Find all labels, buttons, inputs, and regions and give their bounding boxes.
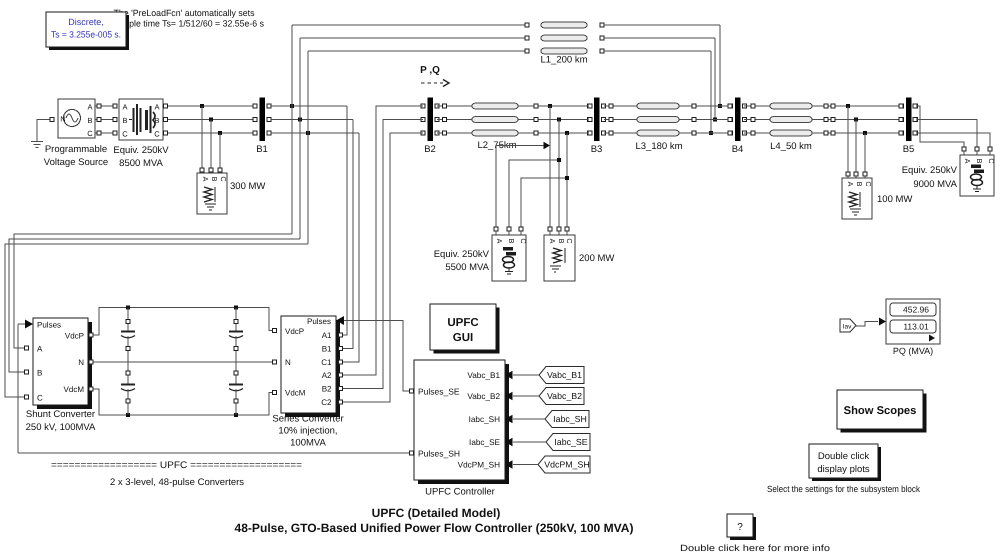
svg-text:B: B [557, 239, 566, 244]
svg-text:C: C [37, 394, 43, 403]
svg-text:N: N [78, 358, 84, 367]
svg-text:B: B [87, 116, 92, 125]
svg-text:C: C [864, 181, 873, 186]
svg-text:A: A [495, 239, 504, 244]
svg-text:B2: B2 [424, 144, 436, 155]
svg-text:452.96: 452.96 [903, 305, 929, 315]
svg-text:VdcPM_SH: VdcPM_SH [458, 461, 500, 470]
svg-text:C: C [219, 176, 228, 181]
svg-text:A: A [846, 182, 855, 187]
svg-text:A: A [201, 177, 210, 182]
svg-text:A: A [154, 103, 159, 112]
svg-text:10% injection,: 10% injection, [278, 426, 337, 437]
svg-text:B1: B1 [256, 144, 268, 155]
svg-text:Vabc_B1: Vabc_B1 [467, 371, 500, 380]
svg-text:N: N [60, 115, 65, 124]
svg-text:The 'PreLoadFcn' automatically: The 'PreLoadFcn' automatically sets [114, 8, 255, 18]
svg-text:VdcP: VdcP [65, 332, 84, 341]
svg-text:Iabc_SH: Iabc_SH [553, 414, 587, 424]
svg-text:A: A [87, 103, 92, 112]
svg-text:300 MW: 300 MW [230, 181, 265, 192]
svg-text:Equiv. 250kV: Equiv. 250kV [902, 165, 958, 176]
svg-text:48-Pulse, GTO-Based Unified Po: 48-Pulse, GTO-Based Unified Power Flow C… [235, 521, 634, 535]
svg-text:8500 MVA: 8500 MVA [119, 158, 163, 169]
svg-text:Pulses_SE: Pulses_SE [418, 387, 460, 397]
svg-text:Double click: Double click [818, 451, 869, 462]
svg-text:Equiv. 250kV: Equiv. 250kV [434, 249, 490, 260]
svg-text:Shunt Converter: Shunt Converter [26, 409, 95, 420]
svg-text:200 MW: 200 MW [579, 253, 614, 264]
svg-text:display plots: display plots [817, 464, 870, 475]
svg-text:L3_180 km: L3_180 km [635, 141, 682, 152]
svg-text:B4: B4 [732, 144, 744, 155]
svg-text:C: C [122, 130, 128, 139]
svg-text:B: B [122, 116, 127, 125]
svg-text:Iabc_SE: Iabc_SE [469, 438, 500, 447]
svg-text:Programmable: Programmable [45, 144, 107, 155]
svg-text:A: A [963, 159, 972, 164]
svg-text:C: C [519, 238, 528, 243]
svg-text:P ,Q: P ,Q [420, 65, 440, 76]
svg-text:Series Converter: Series Converter [272, 414, 343, 425]
svg-text:B5: B5 [903, 144, 915, 155]
svg-text:Discrete,: Discrete, [68, 17, 104, 27]
svg-text:Equiv. 250kV: Equiv. 250kV [113, 145, 169, 156]
svg-text:A: A [122, 103, 127, 112]
svg-text:C: C [154, 130, 160, 139]
svg-text:VdcPM_SH: VdcPM_SH [544, 460, 589, 470]
svg-text:C: C [87, 129, 93, 138]
svg-text:Vabc_B2: Vabc_B2 [547, 391, 582, 401]
svg-text:Voltage Source: Voltage Source [44, 157, 108, 168]
svg-text:VdcP: VdcP [285, 327, 304, 336]
svg-text:Double click here for more inf: Double click here for more info [680, 543, 830, 553]
svg-text:Select the settings for the su: Select the settings for the subsystem bl… [767, 484, 920, 494]
svg-text:Ts = 3.255e-005 s.: Ts = 3.255e-005 s. [51, 30, 121, 40]
svg-text:?: ? [737, 522, 743, 533]
svg-text:Pulses: Pulses [37, 321, 61, 330]
svg-text:PQ (MVA): PQ (MVA) [893, 346, 933, 356]
svg-text:2 x 3-level, 48-pulse Convert: 2 x 3-level, 48-pulse Converters [110, 477, 244, 488]
svg-text:B: B [855, 182, 864, 187]
svg-text:UPFC: UPFC [447, 317, 478, 329]
svg-text:100MVA: 100MVA [290, 438, 326, 449]
svg-text:A1: A1 [322, 331, 332, 340]
svg-text:C: C [565, 238, 574, 243]
svg-text:N: N [285, 358, 291, 367]
svg-text:B3: B3 [591, 144, 603, 155]
svg-text:Show Scopes: Show Scopes [844, 405, 917, 417]
svg-text:Vabc_B2: Vabc_B2 [467, 392, 500, 401]
svg-text:5500 MVA: 5500 MVA [445, 262, 489, 273]
svg-text:A2: A2 [322, 371, 332, 380]
svg-text:9000 MVA: 9000 MVA [913, 179, 957, 190]
svg-text:B2: B2 [322, 385, 332, 394]
svg-text:A: A [37, 345, 43, 354]
svg-text:C2: C2 [321, 398, 332, 407]
svg-text:Iabc_SE: Iabc_SE [554, 437, 587, 447]
svg-text:================== UPFC ======: ================== UPFC ================… [51, 460, 302, 471]
svg-text:Vabc_B1: Vabc_B1 [547, 370, 582, 380]
svg-text:B: B [975, 159, 984, 164]
svg-text:A: A [548, 239, 557, 244]
svg-text:250 kV, 100MVA: 250 kV, 100MVA [26, 422, 96, 433]
svg-text:L4_50 km: L4_50 km [770, 141, 812, 152]
svg-text:UPFC (Detailed Model): UPFC (Detailed Model) [372, 506, 501, 520]
svg-text:B: B [507, 239, 516, 244]
svg-text:GUI: GUI [453, 332, 473, 344]
svg-text:VdcM: VdcM [64, 385, 85, 394]
svg-text:L1_200 km: L1_200 km [540, 55, 587, 66]
svg-text:Pulses_SH: Pulses_SH [418, 449, 460, 459]
svg-text:B1: B1 [322, 345, 332, 354]
svg-text:Iabc_SH: Iabc_SH [469, 415, 500, 424]
svg-text:Iav: Iav [843, 324, 852, 331]
svg-text:B: B [37, 369, 42, 378]
svg-text:Pulses: Pulses [307, 317, 331, 326]
svg-text:C1: C1 [321, 358, 332, 367]
svg-text:UPFC Controller: UPFC Controller [425, 487, 495, 498]
svg-text:C: C [987, 158, 996, 163]
svg-text:VdcM: VdcM [285, 389, 306, 398]
svg-text:100 MW: 100 MW [877, 194, 912, 205]
svg-text:113.01: 113.01 [903, 322, 929, 332]
svg-text:B: B [210, 177, 219, 182]
